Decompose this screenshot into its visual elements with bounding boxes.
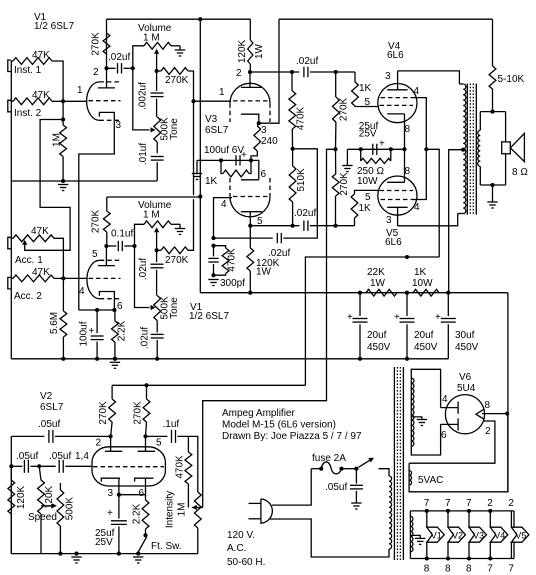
svg-text:6SL7: 6SL7 — [40, 402, 64, 413]
node 2.2K top — [112, 308, 116, 312]
node 1M top — [61, 117, 65, 121]
tube V5 envelope — [378, 176, 417, 215]
tube V3b side dashes — [229, 178, 231, 197]
plate V3a — [249, 72, 251, 87]
svg-text:1W: 1W — [256, 267, 272, 278]
svg-text:V5: V5 — [515, 530, 526, 540]
node osc gnd mid — [74, 552, 78, 556]
wire 5.6M top — [62, 278, 64, 311]
svg-text:5VAC: 5VAC — [418, 475, 443, 486]
capacitor .1uf — [146, 435, 168, 437]
screen V4 dashed — [381, 97, 415, 99]
left bus top — [10, 61, 12, 181]
wire V3b grid entry — [214, 198, 233, 239]
svg-text:1/2 6SL7: 1/2 6SL7 — [34, 21, 74, 32]
svg-text:Ft. Sw.: Ft. Sw. — [151, 541, 182, 552]
wire B+ left riser — [199, 197, 201, 293]
svg-text:450V: 450V — [414, 342, 438, 353]
wire V4 screen — [415, 98, 427, 150]
node V4 cathode tap — [402, 147, 406, 151]
svg-text:V4: V4 — [494, 530, 505, 540]
node V3b grid feed — [198, 194, 202, 198]
left bus bottom — [10, 181, 12, 359]
wire 47K acc1 to node — [54, 238, 63, 278]
svg-text:.05uf: .05uf — [16, 451, 38, 462]
OT core line 4 — [475, 84, 477, 215]
resistor 1K V4 grid — [354, 72, 356, 82]
svg-text:7: 7 — [445, 498, 451, 509]
OT center tap — [449, 150, 464, 293]
svg-text:+: + — [379, 139, 385, 150]
tube V1a envelope dashes — [99, 81, 121, 83]
AC plug body — [261, 499, 272, 523]
svg-text:1K: 1K — [359, 203, 372, 214]
capacitor .02uf to V4 — [303, 67, 305, 77]
svg-text:2: 2 — [487, 498, 493, 509]
svg-text:.1uf: .1uf — [163, 419, 180, 430]
arrow into 47K Acc1 — [22, 240, 27, 245]
node 470K/300pf top — [211, 244, 215, 248]
svg-text:Tone: Tone — [169, 297, 180, 319]
grid V1a dashed — [89, 100, 121, 102]
wire cap out to tone wiper — [133, 68, 150, 130]
plate V6 a — [441, 407, 459, 409]
svg-text:7: 7 — [466, 498, 472, 509]
plate V1a — [106, 68, 108, 88]
capacitor 0.1uf — [106, 245, 116, 247]
svg-text:V3: V3 — [473, 530, 484, 540]
svg-text:.02uf: .02uf — [268, 248, 290, 259]
node 5.6M gnd — [61, 357, 65, 361]
cathode V2a — [101, 478, 120, 481]
svg-text:510K: 510K — [296, 168, 307, 192]
wire V5 plate to OT — [398, 214, 458, 226]
input jack Acc.1 — [8, 237, 11, 249]
svg-text:Acc. 1: Acc. 1 — [15, 255, 43, 266]
node gnd rail sym — [113, 357, 117, 361]
resistor 120K 1W — [247, 248, 254, 271]
svg-text:270K: 270K — [91, 209, 102, 233]
heater gnd — [410, 535, 420, 538]
svg-text:4: 4 — [414, 86, 420, 97]
potentiometer Volume 1M ch1 — [144, 42, 171, 49]
svg-text:6: 6 — [261, 169, 267, 180]
svg-text:20uf: 20uf — [367, 330, 387, 341]
svg-text:20uf: 20uf — [414, 330, 434, 341]
svg-text:6L6: 6L6 — [385, 237, 402, 248]
svg-text:5: 5 — [92, 249, 98, 260]
wire V5 screen — [415, 149, 427, 199]
svg-text:Intensity: Intensity — [164, 491, 175, 528]
plate V1b — [105, 246, 107, 266]
svg-text:.05uf: .05uf — [49, 451, 71, 462]
fuse 2A — [321, 462, 341, 474]
plate V5 — [387, 206, 407, 208]
svg-text:10W: 10W — [412, 278, 433, 289]
ground volume ch2 — [175, 228, 185, 230]
tube V1a envelope — [87, 82, 100, 120]
wire y238 row — [214, 237, 273, 239]
potentiometer 500K speed — [59, 483, 61, 490]
svg-text:5: 5 — [365, 97, 371, 108]
wire feedback to Acc1 — [25, 120, 70, 251]
PT HV center tap gnd — [411, 417, 422, 420]
resistor 5-10K — [492, 19, 494, 66]
svg-text:10W: 10W — [357, 176, 378, 187]
node 20uf1 top — [358, 291, 362, 295]
node pin8 tap — [505, 412, 509, 416]
resistor 270K acc to grid bus — [157, 249, 161, 251]
AC plug prong 2 — [249, 518, 262, 520]
wire volume right to gnd — [171, 45, 180, 47]
svg-text:1W: 1W — [370, 278, 386, 289]
wire 0.1uf to tone2 wiper — [135, 246, 150, 308]
node speaker gnd — [490, 183, 494, 187]
screen V5 dashed — [381, 199, 415, 201]
wire 1K/100uf row — [197, 159, 251, 161]
svg-text:270K: 270K — [98, 401, 109, 425]
svg-text:.02uf: .02uf — [294, 208, 316, 219]
svg-text:120K: 120K — [237, 39, 248, 63]
wire osc row1 — [11, 435, 44, 437]
volume ch1 wiper arrow — [154, 49, 159, 54]
svg-text:Drawn By: Joe Piazza 5 / 7 /: Drawn By: Joe Piazza 5 / 7 / 97 — [222, 431, 362, 442]
capacitor .002uf — [156, 71, 158, 91]
node 30uf top — [446, 291, 450, 295]
tube V6 envelope — [445, 395, 484, 434]
svg-text:30uf: 30uf — [455, 330, 475, 341]
arrow intensity wiper — [192, 505, 197, 510]
resistor 120K 1W V3a load — [248, 40, 253, 64]
grid V2 dashed — [93, 466, 164, 468]
capacitor .05uf b — [23, 460, 25, 473]
PT core line 3 — [399, 367, 401, 560]
wire y72 right — [331, 71, 355, 73]
node 300pf bottom — [211, 273, 215, 277]
capacitor .05uf c — [39, 465, 56, 467]
input jack Acc.2 — [8, 277, 11, 289]
heater socket V2 — [446, 509, 450, 513]
node V2 plate1 — [109, 434, 113, 438]
grid V4 dashed — [380, 104, 414, 106]
svg-text:1M: 1M — [52, 133, 63, 147]
svg-text:1K: 1K — [205, 176, 218, 187]
wire speaker box top — [480, 111, 505, 113]
svg-text:+: + — [107, 508, 113, 519]
PT HV winding box — [411, 369, 440, 455]
node tone2 gnd — [155, 357, 159, 361]
potentiometer Intensity 1M — [194, 492, 201, 528]
tube V3b envelope — [230, 197, 270, 217]
svg-text:25V: 25V — [359, 129, 377, 140]
svg-text:3: 3 — [116, 120, 122, 131]
wire screen feed row — [305, 257, 439, 385]
wire speaker box right bottom — [505, 154, 507, 185]
svg-text:1K: 1K — [414, 267, 427, 278]
node 270K V4 top — [334, 70, 338, 74]
node Ft Sw top — [143, 533, 147, 537]
svg-text:300pf: 300pf — [220, 278, 245, 289]
resistor 120K #2 — [39, 466, 41, 480]
svg-text:500K: 500K — [65, 497, 76, 521]
wire speaker box right top — [505, 112, 507, 142]
svg-text:.02uf: .02uf — [296, 56, 318, 67]
PT HV coil — [411, 378, 414, 446]
cathode V4 — [387, 113, 404, 115]
node screens tap — [424, 147, 428, 151]
resistor 120K #1 — [10, 466, 12, 480]
wire top rail segment 2 — [279, 18, 493, 20]
svg-text:6: 6 — [441, 430, 447, 441]
node 270K V5 bottom — [333, 224, 337, 228]
svg-text:4: 4 — [221, 199, 227, 210]
resistor 270K V2a — [111, 385, 113, 399]
ground preamp1 — [58, 184, 68, 186]
svg-text:A.C.: A.C. — [227, 543, 246, 554]
node grid return — [333, 147, 337, 151]
svg-text:.02uf: .02uf — [138, 258, 149, 280]
node wiper ch2 — [155, 248, 159, 252]
volume ch2 wiper arrow — [154, 227, 159, 232]
svg-text:6SL7: 6SL7 — [205, 125, 229, 136]
wire 5.6M to rail — [62, 337, 64, 359]
svg-text:8: 8 — [405, 166, 411, 177]
capacitor 30uf — [447, 293, 449, 316]
capacitor 100uf — [96, 310, 98, 333]
capacitor 25uf V2 — [118, 495, 120, 519]
svg-text:V3: V3 — [205, 114, 218, 125]
svg-text:22K: 22K — [367, 267, 385, 278]
wire V6 pin2 — [409, 421, 495, 463]
svg-text:fuse 2A: fuse 2A — [312, 453, 346, 464]
wire cathodes join — [119, 494, 146, 496]
wire ground rail main — [11, 358, 448, 360]
resistor 250ohm 10W — [359, 147, 363, 151]
PT 5VAC winding — [409, 414, 508, 492]
svg-text:6: 6 — [139, 488, 145, 499]
wire B+ rail — [200, 292, 508, 294]
resistor 1K V5 grid — [354, 218, 356, 226]
svg-text:1/2 6SL7: 1/2 6SL7 — [189, 311, 229, 322]
PT 5VAC coil — [409, 471, 411, 486]
node 0.1uf out — [132, 244, 136, 248]
svg-text:270K: 270K — [165, 255, 189, 266]
svg-text:V6: V6 — [459, 372, 472, 383]
PT core line 2 — [396, 367, 398, 560]
heater bottom bus — [410, 558, 514, 560]
svg-text:470K: 470K — [296, 106, 307, 130]
wire V4 plate to OT — [398, 71, 460, 84]
svg-text:8: 8 — [445, 564, 451, 575]
svg-text:V2: V2 — [452, 530, 463, 540]
svg-text:5: 5 — [365, 192, 371, 203]
grid V3a dashed — [233, 100, 268, 102]
resistor 1K 10W — [413, 289, 439, 296]
node 510K bottom — [291, 224, 295, 228]
svg-text:270K: 270K — [132, 401, 143, 425]
node 20uf1 bottom — [358, 357, 362, 361]
OT secondary bottom lead — [479, 166, 481, 185]
grid V5 dashed — [380, 190, 414, 192]
svg-text:+: + — [347, 312, 353, 323]
filament V6 — [476, 409, 484, 419]
PT heater coil — [410, 516, 413, 551]
plate V6 b — [441, 423, 459, 425]
svg-text:4: 4 — [442, 394, 448, 405]
svg-text:270K: 270K — [339, 172, 350, 196]
svg-text:.02uf: .02uf — [140, 327, 151, 349]
resistor 470K grid leak — [222, 248, 229, 273]
resistor 5.6M — [60, 311, 67, 337]
resistor 270K to V3a — [157, 70, 161, 72]
resistor 2.2K V2 — [145, 495, 147, 500]
svg-text:.02uf: .02uf — [108, 52, 130, 63]
cathode V2b — [135, 478, 154, 481]
svg-text:450V: 450V — [455, 342, 479, 353]
svg-text:Speed: Speed — [28, 512, 57, 523]
svg-text:120K: 120K — [16, 485, 27, 509]
svg-text:2: 2 — [236, 68, 242, 79]
wire grid node to V3a — [194, 100, 232, 102]
wire switch to PT — [379, 469, 390, 476]
wire grid node to V1b — [63, 277, 87, 279]
resistor 240 cathode — [257, 123, 259, 126]
wire plug bottom — [270, 519, 389, 557]
heater top bus — [410, 510, 514, 512]
node fuse right — [339, 467, 343, 471]
svg-text:+: + — [241, 150, 247, 161]
svg-text:1: 1 — [77, 85, 83, 96]
wire 47K to node — [52, 61, 63, 101]
node 510K top — [291, 147, 295, 151]
arrow speed wiper — [41, 505, 53, 507]
wire tone to .01uf — [156, 142, 158, 153]
svg-text:120 V.: 120 V. — [227, 530, 255, 541]
svg-text:V1: V1 — [431, 530, 442, 540]
svg-text:3: 3 — [386, 215, 392, 226]
resistor 510K — [289, 166, 296, 202]
node grid V1a — [61, 99, 65, 103]
node 25uf v2 gnd — [117, 552, 121, 556]
node .05uf mid — [37, 464, 41, 468]
speaker driver — [502, 142, 511, 154]
left bus V2 — [10, 436, 12, 553]
svg-text:8 Ω: 8 Ω — [512, 167, 528, 178]
node 100uf top — [95, 308, 99, 312]
svg-text:.01uf: .01uf — [138, 143, 149, 165]
input jack Inst.1 — [8, 60, 11, 72]
ground speaker — [492, 185, 494, 202]
AC plug prong 1 — [249, 502, 262, 504]
svg-text:4: 4 — [414, 202, 420, 213]
OT core line 1 — [466, 84, 468, 215]
node wiper ch1 — [155, 69, 159, 73]
svg-text:270K: 270K — [165, 75, 189, 86]
node row2 left — [9, 464, 13, 468]
wire 470K bottom — [214, 273, 226, 275]
node .02uf-B tap — [211, 236, 215, 240]
node 100uf gnd — [95, 357, 99, 361]
resistor 270K V5 — [335, 196, 337, 226]
cathode V5 — [387, 181, 404, 183]
wire 47K acc2 to node — [54, 277, 63, 279]
svg-text:5-10K: 5-10K — [498, 74, 525, 85]
svg-text:2.2K: 2.2K — [117, 320, 128, 341]
resistor 470K intensity — [187, 443, 189, 452]
heater socket V5 — [510, 511, 512, 527]
svg-text:.002uf: .002uf — [138, 82, 149, 110]
svg-text:470K: 470K — [227, 248, 238, 272]
svg-text:47K: 47K — [32, 267, 50, 278]
svg-text:8: 8 — [485, 400, 491, 411]
capacitor 20uf #1 — [359, 293, 361, 316]
node 100uf6V right — [249, 158, 253, 162]
svg-text:Model M-15 (6L6 version): Model M-15 (6L6 version) — [222, 420, 336, 431]
wire jack1 to R — [11, 60, 13, 62]
svg-text:6: 6 — [117, 301, 123, 312]
svg-text:1 M: 1 M — [143, 210, 160, 221]
resistor 47K Acc.1 — [13, 235, 54, 242]
svg-text:7: 7 — [487, 564, 493, 575]
input jack Inst.2 — [8, 100, 11, 112]
resistor 47K Acc.2 — [13, 275, 54, 282]
tube V3a side dashes — [229, 103, 231, 122]
grid V3b dashed — [233, 196, 268, 198]
svg-text:8: 8 — [405, 124, 411, 135]
svg-text:Inst. 2: Inst. 2 — [14, 108, 42, 119]
wire A left — [250, 225, 299, 227]
node 20uf2 bottom — [405, 357, 409, 361]
wire 270K to grid node — [188, 71, 194, 101]
svg-text:470K: 470K — [175, 455, 186, 479]
wire 1M to gnd rail — [62, 157, 64, 182]
wire jack3 to R — [11, 237, 13, 239]
capacitor 100uf 6V — [235, 155, 237, 165]
wire speaker box bottom — [480, 184, 505, 186]
node plate V1a — [104, 66, 108, 70]
wire V1b plate node — [104, 244, 108, 248]
svg-text:Inst. 1: Inst. 1 — [14, 65, 42, 76]
svg-text:2: 2 — [485, 426, 491, 437]
svg-text:6L6: 6L6 — [387, 50, 404, 61]
plate V3b — [241, 211, 262, 213]
OT core line 2 — [469, 84, 471, 215]
svg-text:4: 4 — [79, 286, 85, 297]
grid V1b dashed — [89, 277, 121, 279]
OT primary coil — [463, 84, 466, 214]
wire 470K top — [214, 246, 226, 248]
svg-text:.05uf: .05uf — [325, 482, 347, 493]
resistor 270K V4 — [335, 72, 337, 97]
wire tone2 to cap — [156, 321, 158, 333]
svg-text:V2: V2 — [40, 391, 53, 402]
wire volume2 right to gnd — [171, 223, 180, 225]
wire wiper2 down — [156, 232, 158, 251]
capacitor 300pf — [213, 246, 215, 257]
tube V1b envelope — [87, 260, 100, 298]
node 100uf6V left — [219, 158, 223, 162]
svg-text:3: 3 — [108, 488, 114, 499]
svg-text:2: 2 — [93, 67, 99, 78]
svg-text:5U4: 5U4 — [457, 383, 476, 394]
node fuse left — [319, 467, 323, 471]
wire ground rail preamp1 — [11, 180, 157, 182]
PT primary coil — [389, 476, 392, 549]
wire grid node to V1a — [63, 100, 87, 102]
svg-text:Ampeg Amplifier: Ampeg Amplifier — [222, 408, 295, 419]
svg-text:270K: 270K — [339, 97, 350, 121]
node Ft Sw gnd — [136, 552, 140, 556]
